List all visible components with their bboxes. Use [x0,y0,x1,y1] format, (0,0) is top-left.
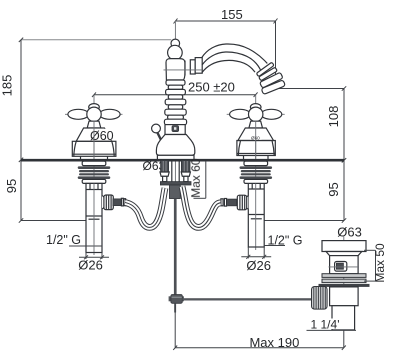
right escutcheon [237,141,275,156]
column body [166,59,185,80]
svg-text:108: 108 [326,106,341,128]
right handle stem [249,121,263,128]
right valve under-deck stack [240,161,273,183]
right valve centerline overlay [255,122,257,159]
svg-text:95: 95 [326,182,341,196]
left handle bonnet cone [76,128,112,141]
left valve outlet [102,195,126,210]
svg-text:Max 190: Max 190 [249,335,299,350]
spout collar at body [185,58,202,76]
column centerline [174,21,176,198]
svg-text:Max 60: Max 60 [189,158,203,198]
drain plate 2 [322,279,366,283]
Max 50 bracket [364,250,376,281]
right 1/2 G leader [264,245,285,247]
1 1/4 leader [307,329,357,331]
left valve under-deck stack [78,161,111,183]
drain flange [322,241,366,252]
svg-text:1/2" G: 1/2" G [46,233,81,247]
left handle centerline [93,95,95,255]
drain knob [335,262,347,272]
rod tip [174,303,176,312]
svg-text:Ø26: Ø26 [246,258,271,273]
stud nuts [160,172,169,176]
stud stems [163,176,167,181]
svg-text:Ø26: Ø26 [78,258,103,273]
drain plate 3 wide [319,284,370,287]
tick 95 left bottom [21,220,86,222]
aerator bands [256,62,285,94]
dimension 185/95 left vertical [19,38,23,223]
left Ø26 dimension [79,253,109,260]
left 1/2 G leader [69,245,102,247]
drain lower tube [330,287,359,306]
drain flange taper [326,252,362,256]
spout tube [202,44,267,63]
right handle cross [230,104,282,122]
column finial bead [171,39,180,48]
svg-text:155: 155 [221,7,243,22]
left valve centerline overlay [93,122,95,159]
pop-up lever [152,124,161,133]
dimension 108/95 right vertical [262,86,346,222]
pop-up rod [174,199,177,295]
left hose [125,188,165,227]
collar knob [172,126,179,132]
label 1 1/4" [330,319,344,330]
right valve tube [248,183,264,247]
svg-text:185: 185 [0,75,15,97]
svg-text:Max 50: Max 50 [373,243,387,283]
Max 60 bracket [194,161,206,198]
extension line 185 top [21,39,171,41]
right handle bonnet cone [238,128,274,141]
mounting bracket bar [160,182,191,185]
svg-text:Ø63: Ø63 [337,224,362,239]
label Ø60 right tiny [251,135,262,141]
Max 190 dimension [173,305,346,350]
drain centerline [343,237,345,331]
center tailpiece nut [170,185,181,199]
right Ø26 dimension [241,247,271,259]
left valve tube [86,183,102,252]
drain plate 1 [322,274,366,278]
svg-text:1 1/4': 1 1/4' [311,318,340,332]
label Ø60 left [90,129,114,143]
body centerline [164,69,203,71]
column base skirt [157,155,194,159]
drain knurled nut [312,287,328,310]
right valve outlet [221,195,248,210]
svg-text:250 ±20: 250 ±20 [188,80,235,95]
column dip tube below deck [172,161,179,182]
dimension 155 line [174,19,278,89]
column collar block [165,125,185,135]
left escutcheon [72,141,116,156]
column ball [168,45,183,60]
horizontal drain rod [182,298,313,300]
left handle stem [87,121,101,128]
drain upper body [330,256,359,274]
column rings [164,80,186,125]
column bell base [156,135,194,156]
svg-text:95: 95 [4,179,19,193]
rod clamp [171,295,182,304]
svg-text:1/2" G: 1/2" G [268,234,303,248]
right hose [182,187,221,228]
center mounting studs [161,160,190,172]
left handle cross [68,104,120,122]
drain tailpiece [332,306,355,330]
deck line [21,159,344,162]
dimension 250 ±20 [92,92,258,97]
drain body centerline tick [329,266,360,268]
right handle centerline [255,95,257,250]
rod clamp tabs [169,296,172,301]
